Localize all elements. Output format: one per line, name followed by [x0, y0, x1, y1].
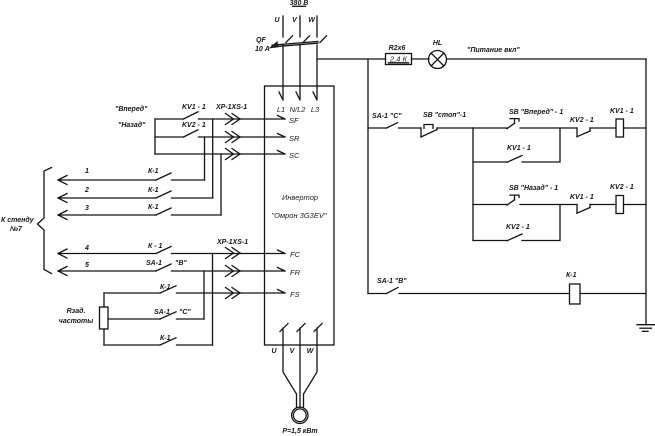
contact K-1 NO (wire 2) — [156, 191, 171, 198]
svg-text:1: 1 — [85, 168, 89, 175]
wire coil K-1 to right bus — [580, 293, 646, 295]
wire row 6 to connector — [177, 292, 242, 294]
wire row A to contact — [155, 118, 184, 120]
svg-text:P=1,5 кВт: P=1,5 кВт — [282, 428, 317, 435]
wire row C down to wire 3 — [220, 154, 222, 215]
svg-text:R2x6: R2x6 — [389, 45, 406, 52]
wire rung2 main from junction column — [473, 204, 507, 206]
wire row C — [155, 153, 241, 155]
svg-text:FC: FC — [290, 250, 301, 259]
svg-text:10 А: 10 А — [255, 46, 270, 53]
pushbutton SB stop NC (rung 1) — [421, 125, 473, 138]
wire row A down to wire 2 — [212, 119, 214, 198]
wire coil KV2-1 to right bus — [624, 204, 647, 206]
svg-text:SB "Вперед" - 1: SB "Вперед" - 1 — [509, 108, 563, 116]
wire rung1 main to button SB forward — [473, 127, 507, 129]
svg-text:SC: SC — [289, 151, 300, 160]
contact KV1-1 NO self-hold (rung 1 branch) — [507, 156, 522, 163]
wire parallel branch rung2 — [473, 205, 560, 241]
wire FR input with arrow — [241, 268, 285, 272]
bracket to stand — [38, 168, 52, 274]
svg-text:L3: L3 — [311, 105, 320, 114]
potentiometer R frequency set — [100, 293, 109, 345]
motor M1 — [292, 407, 308, 423]
inverter output arrow U — [280, 324, 288, 346]
contact KV2-1 NO (row B) — [184, 130, 199, 137]
connector chevrons wire 5 — [226, 266, 241, 277]
svg-text:"С": "С" — [179, 309, 191, 316]
switch SA-1 "C" contact (rung 1) — [368, 123, 421, 128]
svg-text:L1: L1 — [277, 105, 285, 114]
svg-text:SB "Назад" - 1: SB "Назад" - 1 — [509, 184, 558, 192]
svg-text:FS: FS — [290, 290, 300, 299]
connector chevrons wire 6 — [226, 288, 241, 299]
contact KV2-1 NC (rung 1) — [577, 128, 616, 137]
svg-text:KV1 - 1: KV1 - 1 — [507, 145, 531, 152]
svg-text:KV1 - 1: KV1 - 1 — [610, 108, 634, 115]
wire SF input with arrow — [241, 116, 285, 120]
contact KV1-1 NC (rung 2) — [577, 205, 616, 214]
svg-text:N/L2: N/L2 — [290, 105, 307, 114]
wire row B to contact — [155, 136, 184, 138]
svg-text:KV2 - 1: KV2 - 1 — [570, 117, 594, 124]
svg-text:KV2 - 1: KV2 - 1 — [182, 122, 206, 129]
pushbutton SB forward NO (rung 1) — [507, 119, 577, 129]
wire 1 with left arrow — [58, 176, 156, 185]
wire row B down to wire 1 — [204, 137, 206, 180]
wire left control bus — [367, 59, 369, 294]
svg-text:К-1: К-1 — [148, 204, 159, 211]
wire row 8 to column — [177, 344, 213, 346]
wire resistor to lamp — [412, 58, 430, 60]
svg-text:HL: HL — [433, 40, 442, 47]
wire 4 to connector — [172, 253, 242, 255]
wire phase U breaker to inverter L1 with arrow — [282, 45, 284, 99]
svg-text:SA-1 "В": SA-1 "В" — [377, 278, 407, 285]
svg-text:SA-1: SA-1 — [154, 309, 170, 316]
svg-text:KV1 - 1: KV1 - 1 — [182, 104, 206, 111]
svg-text:SB "стоп"-1: SB "стоп"-1 — [423, 112, 466, 119]
connector chevrons wire 4 — [226, 248, 241, 259]
svg-text:SA-1: SA-1 — [146, 260, 162, 267]
svg-text:К - 1: К - 1 — [148, 243, 163, 250]
contact KV2-1 NO self-hold (rung 2 branch) — [507, 234, 522, 241]
svg-text:4: 4 — [84, 245, 89, 252]
switch SA-1 "B" NO (wire 5) — [156, 264, 171, 271]
wire top rail from breaker output to control circuit — [317, 58, 386, 60]
connector chevrons row A — [226, 114, 241, 125]
pushbutton SB reverse NO (rung 2) — [507, 195, 577, 205]
resistor R2x6 — [386, 54, 412, 65]
svg-text:К стенду: К стенду — [1, 216, 35, 224]
wire FC input with arrow — [241, 250, 285, 254]
ground — [637, 325, 655, 332]
svg-text:ХР-1ХS-1: ХР-1ХS-1 — [216, 239, 248, 246]
wire SC input with arrow — [241, 151, 285, 155]
wire phase W from supply to breaker — [316, 16, 318, 37]
contact KV1-1 NO (row A) — [184, 112, 199, 119]
relay coil KV2-1 — [616, 196, 624, 214]
svg-text:5: 5 — [85, 262, 89, 269]
wire FS input with arrow — [241, 290, 285, 294]
wire 3 to column — [172, 214, 222, 216]
contact K-1 NO (wire 3) — [156, 208, 171, 215]
contact K-1 NO (wire 1) — [156, 173, 171, 180]
wire 3 with left arrow — [58, 211, 156, 220]
wire row A contact to connector — [199, 118, 242, 120]
lamp HL — [429, 51, 447, 69]
svg-text:частоты: частоты — [59, 318, 93, 325]
wire 2 with left arrow — [58, 194, 156, 203]
wire row 7 to column — [177, 318, 205, 320]
wire row 8 from pot bottom — [104, 344, 160, 346]
svg-text:"Назад": "Назад" — [118, 121, 146, 129]
wire motor phase U — [283, 345, 297, 407]
wire right control bus — [645, 59, 647, 325]
svg-text:2: 2 — [84, 187, 89, 194]
wire row5 down to row7 — [203, 271, 205, 319]
svg-text:Rзад.: Rзад. — [67, 307, 86, 315]
inverter output arrow V — [297, 324, 305, 346]
svg-text:3: 3 — [85, 205, 89, 212]
relay coil K-1 — [570, 284, 581, 304]
wire 5 with left arrow — [58, 267, 156, 276]
wire phase U from supply to breaker — [282, 16, 284, 37]
wire motor phase V — [299, 345, 301, 407]
svg-text:KV2 - 1: KV2 - 1 — [610, 184, 634, 191]
wire parallel branch rung1 — [473, 128, 560, 162]
contact K-1 NO (wire 4) — [156, 247, 171, 254]
relay coil KV1-1 — [616, 119, 624, 137]
svg-text:KV1 - 1: KV1 - 1 — [570, 194, 594, 201]
wire phase V from supply to breaker — [299, 16, 301, 37]
wire SR input with arrow — [241, 134, 285, 138]
svg-text:"Омрон 3G3EV": "Омрон 3G3EV" — [271, 211, 326, 220]
wire left bus rows A-C — [154, 119, 156, 154]
svg-text:FR: FR — [290, 268, 301, 277]
svg-text:К-1: К-1 — [148, 187, 159, 194]
switch SA-1 "B" contact (rung 3) — [368, 288, 570, 294]
wire 5 to connector — [172, 270, 242, 272]
wire 1 to column — [172, 179, 205, 181]
wire 2 to column — [172, 197, 213, 199]
svg-text:ХР-1ХS-1: ХР-1ХS-1 — [215, 104, 247, 111]
wire junction column rung1 to branches — [472, 128, 474, 241]
inverter U1 box — [265, 86, 335, 345]
wire row B contact to connector — [199, 136, 242, 138]
wire phase V breaker to inverter N/L2 with arrow — [299, 45, 301, 99]
svg-text:KV2 - 1: KV2 - 1 — [506, 224, 530, 231]
wire 4 with left arrow — [58, 249, 156, 258]
wire lamp to right bus — [447, 58, 647, 60]
wire row4 down to row8 — [212, 254, 214, 346]
wire coil KV1-1 to right bus — [624, 127, 647, 129]
svg-text:"Вперед": "Вперед" — [115, 105, 148, 113]
contact K-1 NO (row 6) — [160, 286, 176, 293]
wire motor phase W — [304, 345, 318, 407]
breaker QF 10A (3-pole) — [269, 36, 327, 49]
svg-text:К-1: К-1 — [148, 168, 159, 175]
wire row 7 from pot wiper — [108, 318, 160, 320]
contact K-1 NO (row 8) — [160, 338, 176, 345]
switch SA-1 "C" NO (row 7) — [160, 312, 176, 319]
wire phase W breaker to inverter L3 with arrow — [316, 45, 318, 99]
svg-text:К-1: К-1 — [160, 284, 171, 291]
svg-text:SA-1 "С": SA-1 "С" — [372, 113, 402, 120]
inverter output arrow W — [314, 324, 322, 346]
svg-text:QF: QF — [256, 37, 266, 44]
svg-text:SR: SR — [289, 134, 300, 143]
connector chevrons row C — [226, 149, 241, 160]
svg-text:К-1: К-1 — [160, 335, 171, 342]
svg-text:"Питание вкл": "Питание вкл" — [467, 47, 520, 54]
svg-text:SF: SF — [289, 116, 299, 125]
svg-text:Инвертор: Инвертор — [282, 193, 318, 202]
svg-text:"В": "В" — [175, 260, 187, 267]
connector chevrons row B — [226, 132, 241, 143]
wire row 6 from pot bus — [104, 292, 160, 294]
svg-text:К-1: К-1 — [566, 272, 577, 279]
svg-text:№7: №7 — [9, 226, 23, 233]
